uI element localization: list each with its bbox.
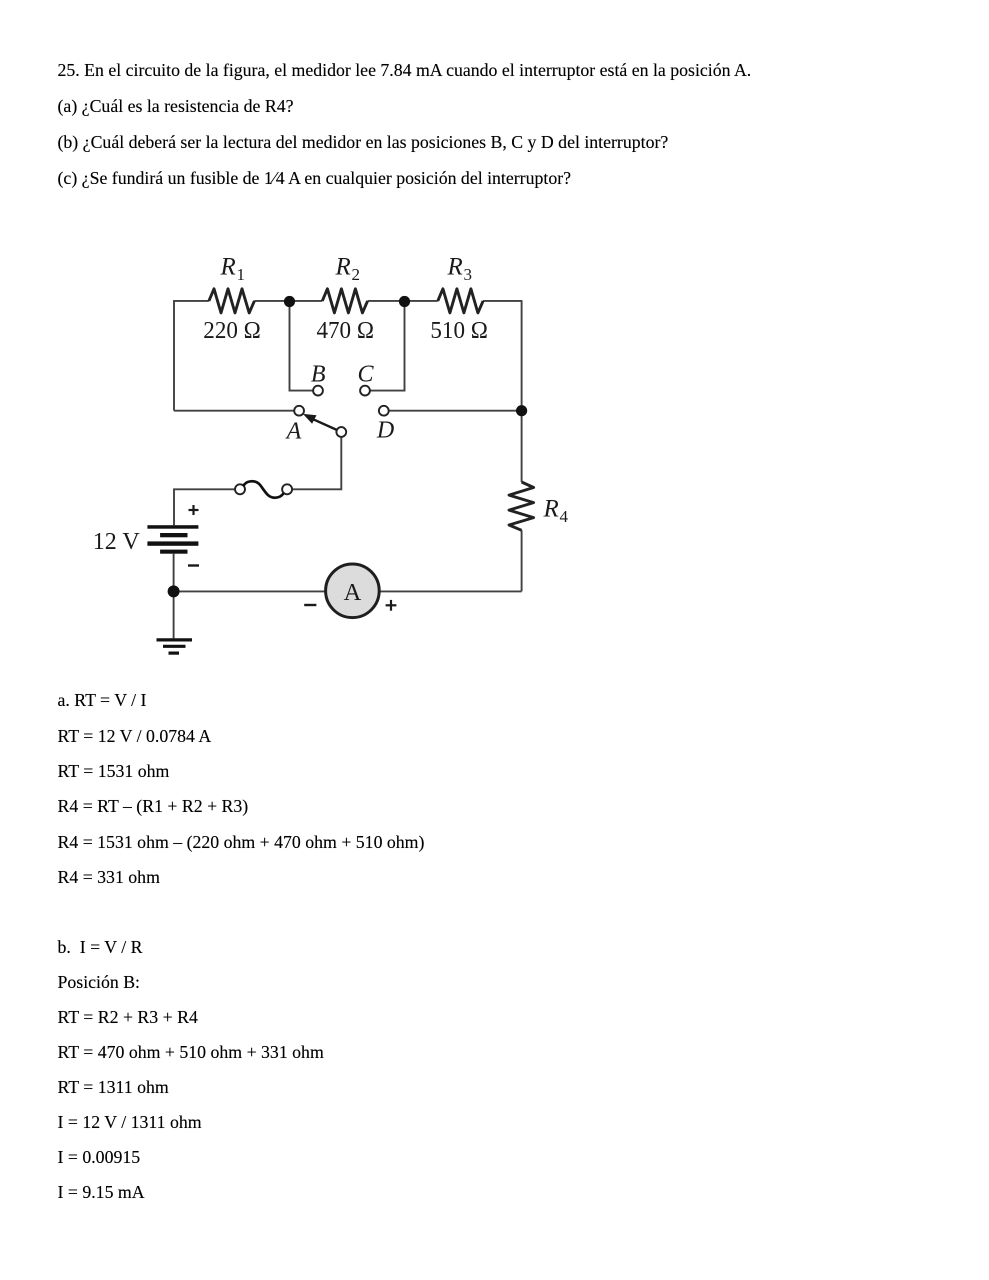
ammeter body — [326, 564, 380, 618]
battery minus sign — [188, 564, 199, 566]
terminal D — [379, 406, 389, 416]
svg-text:R: R — [447, 254, 463, 281]
solution part a block — [58, 683, 425, 895]
svg-text:D: D — [376, 418, 394, 444]
svg-text:B: B — [311, 361, 326, 387]
wire battery bottom to node — [173, 554, 175, 592]
svg-text:C: C — [358, 361, 375, 387]
node dot battery bottom — [168, 585, 180, 597]
battery plate 3 (long) — [147, 541, 198, 545]
terminal C — [360, 386, 370, 396]
battery plate 1 (long +) — [147, 525, 198, 529]
svg-text:220 Ω: 220 Ω — [203, 318, 260, 344]
solution part b block — [58, 930, 324, 1210]
wire switch pole down to fuse level — [292, 437, 341, 489]
svg-text:2: 2 — [352, 265, 361, 284]
fuse right terminal — [282, 484, 292, 494]
wire node to ground — [173, 591, 175, 638]
wire top rail segment R1-R2 — [254, 300, 322, 302]
wire right vertical top rail to R4 — [521, 300, 523, 482]
terminal A — [294, 406, 304, 416]
svg-text:510 Ω: 510 Ω — [430, 318, 488, 344]
svg-text:4: 4 — [560, 507, 569, 526]
battery plate 2 (short) — [160, 533, 187, 537]
node dot J1 — [284, 296, 295, 307]
node dot right (D rail) — [516, 405, 527, 416]
switch pole terminal — [336, 427, 346, 437]
svg-text:A: A — [285, 418, 302, 444]
wire node1 drop to B terminal — [290, 301, 314, 391]
wire right vertical R4 to bottom rail — [521, 530, 523, 591]
svg-text:R: R — [335, 254, 351, 281]
resistor R1 zigzag — [209, 289, 255, 313]
svg-text:R: R — [220, 254, 236, 281]
svg-text:R: R — [543, 496, 559, 523]
ground symbol — [157, 640, 193, 653]
wire from D terminal to right rail — [389, 410, 522, 412]
ammeter minus sign — [304, 604, 316, 606]
wire node2 drop to C terminal — [370, 301, 405, 391]
wire bottom rail battery-node to meter — [174, 590, 325, 592]
svg-text:3: 3 — [464, 265, 473, 284]
wire meter to right corner — [380, 590, 521, 592]
wire top rail segment R2-R3 — [368, 300, 438, 302]
wire top rail segment left — [174, 300, 209, 302]
svg-text:12 V: 12 V — [93, 529, 141, 555]
wire horizontal to switch terminal A — [174, 410, 294, 412]
node dot J2 — [399, 296, 410, 307]
terminal B — [313, 386, 323, 396]
resistor R2 zigzag — [322, 289, 367, 313]
svg-text:1: 1 — [237, 265, 246, 284]
switch arrow shaft — [313, 419, 337, 430]
wire top rail segment R3-corner — [483, 300, 521, 302]
svg-text:470 Ω: 470 Ω — [317, 318, 375, 344]
battery plate 4 (short) — [160, 550, 187, 554]
ammeter plus sign — [386, 600, 397, 611]
wire left vertical from top rail to A-row — [173, 300, 175, 411]
fuse S-curve element — [243, 481, 283, 497]
problem statement block — [58, 53, 752, 196]
resistor R3 zigzag — [438, 289, 483, 313]
svg-text:A: A — [344, 579, 362, 606]
fuse left terminal — [235, 484, 245, 494]
wire fuse to left corner and down to battery — [174, 489, 235, 525]
switch arrow head — [303, 414, 317, 424]
battery plus sign — [189, 505, 199, 515]
resistor R4 zigzag (vertical) — [509, 482, 534, 530]
